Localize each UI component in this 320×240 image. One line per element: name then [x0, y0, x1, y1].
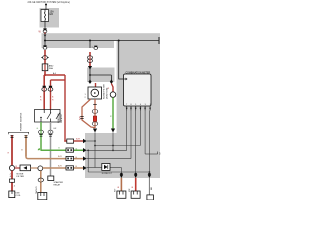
red wire main x45 below band	[44, 50, 46, 75]
small band mid line	[90, 74, 111, 76]
svg-text:30A: 30A	[49, 67, 53, 70]
component box bottom-left (igniter)	[9, 191, 15, 198]
svg-text:8: 8	[130, 104, 131, 106]
oval connector on main	[43, 56, 48, 60]
p6 vertical to drop3	[148, 111, 150, 175]
bus mid-line in band	[45, 40, 159, 42]
arrowhead inside band	[44, 35, 47, 37]
fuse symbol	[44, 10, 45, 22]
green wire from switch pin IG	[40, 122, 42, 150]
combination meter box in column	[124, 74, 152, 106]
p3 vertical to drop2	[135, 111, 137, 175]
svg-text:IGNITION: IGNITION	[58, 113, 60, 123]
noise filter box NF1	[20, 165, 31, 171]
p5 vertical and line to edge	[144, 111, 146, 155]
svg-text:G: G	[76, 148, 78, 150]
arrow into meter box	[124, 78, 128, 80]
connector box on brown2	[66, 166, 74, 170]
noise filter (ignition) box	[88, 87, 102, 99]
oval connector on green	[39, 130, 44, 134]
svg-text:B-R: B-R	[58, 156, 62, 158]
tick on right leg	[93, 104, 97, 106]
red resistor block	[93, 116, 96, 122]
x95 vertical	[94, 133, 96, 168]
wire drop x90 inside band	[89, 41, 91, 49]
connector box 2	[131, 191, 140, 198]
gray wire from switch pin AM	[50, 122, 52, 176]
ECM entry arrow green	[83, 148, 87, 152]
gray wire end connector box	[48, 176, 54, 181]
small gray band (center J/B)	[87, 68, 115, 83]
svg-text:FILTER: FILTER	[17, 176, 25, 178]
battery feed dot	[45, 4, 47, 6]
brown drop wire 1	[120, 178, 122, 191]
svg-text:RELAY: RELAY	[54, 183, 61, 186]
wire circle1 to filter	[15, 167, 20, 169]
wire drop to meter box	[119, 41, 124, 80]
svg-text:B-R: B-R	[58, 165, 62, 167]
loop right leg	[94, 99, 96, 128]
exit plug below band x95.8	[94, 46, 97, 48]
L3 green-in	[87, 149, 127, 151]
red drop from band x90	[89, 52, 91, 66]
p2 vertical	[130, 111, 132, 159]
svg-text:4: 4	[140, 104, 141, 106]
junction block J/B gray box (top)	[40, 8, 60, 28]
junction node at main wire	[44, 40, 46, 42]
p1 vertical	[126, 111, 128, 151]
noise filter circle connector 1	[9, 165, 14, 170]
cup connector top red	[10, 136, 13, 138]
svg-text:B-R: B-R	[76, 139, 80, 141]
tee to switch pin2	[51, 79, 66, 81]
wire from battery to fuse	[45, 5, 47, 10]
brown wire bend to horizontal	[26, 157, 83, 159]
wire inside band	[44, 33, 46, 48]
oval connector	[38, 178, 43, 182]
bus end bar	[158, 37, 160, 44]
connector box on green	[66, 148, 74, 152]
oval connector lower	[92, 122, 98, 126]
green-top vertical	[112, 133, 114, 151]
svg-text:COIL: COIL	[16, 195, 22, 197]
gray drop wire 3	[148, 178, 150, 196]
fusible link box	[42, 64, 48, 71]
svg-text:7: 7	[126, 104, 127, 106]
ECM top entry arrow red	[93, 129, 97, 133]
red drop wire 2	[135, 178, 137, 191]
svg-text:EFI: EFI	[50, 13, 54, 16]
ECM internal wiring	[87, 111, 158, 175]
amp out to drop1	[110, 167, 121, 169]
brown feed wire	[25, 135, 27, 157]
red wire below circle1	[11, 171, 13, 191]
L5 brown2-in to amp box	[87, 167, 102, 169]
switch contacts inside	[43, 110, 45, 114]
ovals on pin wires	[42, 86, 46, 88]
ECM entry arrow brown2	[83, 166, 87, 170]
svg-text:BR: BR	[151, 187, 153, 190]
junction on red main	[44, 74, 46, 76]
ECM entry arrow brown1	[83, 156, 87, 160]
wire filter to circle2	[31, 167, 38, 169]
inline connector on red	[9, 179, 14, 182]
oval connector on gray	[48, 130, 53, 134]
svg-text:5: 5	[135, 104, 136, 106]
svg-text:G: G	[110, 115, 112, 117]
junction dots	[87, 140, 150, 173]
ECM top entry arrow green	[111, 129, 115, 133]
node for right column feed	[118, 40, 120, 42]
branch drop	[64, 75, 66, 142]
connector plug at J/B exit	[43, 28, 47, 30]
wire inside small band	[89, 69, 91, 82]
ECM entry arrow red	[83, 139, 87, 143]
split bracket	[9, 132, 29, 134]
cup connector top brown	[24, 136, 27, 138]
red jog from small band right exit	[111, 84, 113, 92]
oval pair on x90	[88, 56, 93, 59]
svg-text:POWER SOURCE: POWER SOURCE	[21, 112, 23, 131]
red-in line	[87, 140, 95, 142]
L4 brown1-in	[87, 158, 131, 160]
svg-text:IGT: IGT	[115, 188, 117, 192]
svg-text:GR: GR	[53, 128, 57, 130]
meter pin numbers	[126, 104, 150, 106]
meter pins with arrows	[127, 106, 150, 111]
L6	[88, 171, 149, 173]
right gray column	[117, 41, 160, 178]
p4 vertical	[139, 111, 141, 146]
svg-text:SW ASSY: SW ASSY	[60, 113, 63, 123]
amplifier box inside ECM	[102, 164, 110, 171]
svg-text:B-R: B-R	[80, 116, 82, 120]
fuse F1 box	[41, 10, 49, 22]
exit diamond right	[110, 80, 113, 84]
bottom exit arrows from ECM	[120, 173, 123, 176]
L2	[95, 145, 140, 147]
green wire down	[112, 97, 114, 128]
small box at bottom	[147, 195, 154, 200]
svg-text:G: G	[37, 128, 39, 130]
main gray band (engine room relay block)	[42, 33, 115, 48]
L6 branch vertical	[87, 150, 89, 172]
brown wire circle2 to ECM	[43, 167, 83, 169]
tick pair on left leg	[80, 116, 83, 118]
red wire into band	[44, 33, 46, 35]
wire below fuse	[44, 22, 46, 30]
svg-text:NOISE FILTER: NOISE FILTER	[104, 84, 106, 99]
svg-text:COMBINATION METER: COMBINATION METER	[126, 72, 151, 75]
ECM gray region (bottom)	[85, 133, 160, 178]
loop left leg	[82, 99, 95, 128]
entry arrow into small band	[88, 66, 92, 70]
red wire into noise filter circle box	[95, 83, 97, 88]
ignition switch box SW1	[35, 110, 61, 123]
red feed wire left	[11, 135, 13, 166]
component box 2	[38, 193, 47, 200]
connector box on brown1	[66, 156, 74, 160]
svg-text:3: 3	[145, 104, 146, 106]
branch wire to right	[45, 74, 65, 76]
exit plug below band x45	[43, 45, 46, 47]
oval connector on right leg	[92, 110, 98, 114]
node at x90	[89, 40, 91, 42]
green horizontal wire to ECM	[41, 149, 84, 151]
svg-text:TACHO: TACHO	[35, 186, 38, 194]
svg-text:1: 1	[150, 104, 151, 106]
svg-text:NOISE FLT: NOISE FLT	[102, 173, 113, 175]
connector box 1	[117, 191, 126, 198]
circle connector red-green	[110, 92, 116, 98]
exit diamond left	[88, 80, 91, 84]
circle connector 2	[38, 166, 43, 171]
upper strip over column	[114, 33, 160, 41]
svg-text:2JZ-GE IGNITION SYSTEM (w/ Day: 2JZ-GE IGNITION SYSTEM (w/ Daytime)	[28, 1, 71, 4]
red branch connector box near ECM	[67, 139, 74, 143]
brown wire below circle2	[40, 171, 42, 193]
